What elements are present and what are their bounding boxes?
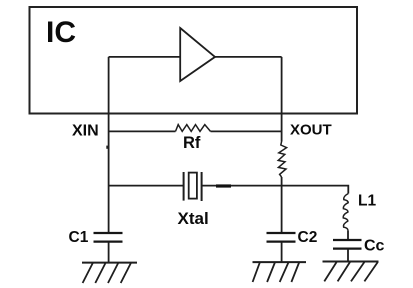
thick wire dash after crystal <box>216 184 231 187</box>
wire: XOUT squiggle to C2 <box>281 177 283 233</box>
svg-text:Rf: Rf <box>183 134 201 152</box>
svg-text:XIN: XIN <box>72 123 99 140</box>
wire: crystal node to L1 <box>282 186 349 194</box>
svg-text:XOUT: XOUT <box>290 122 332 139</box>
inductor L1 <box>343 194 348 231</box>
wire: Rf feedback left segment <box>109 130 176 132</box>
wire: amplifier input horizontal <box>109 56 181 58</box>
crystal Xtal body <box>189 173 197 199</box>
capacitor C1 top plate <box>94 232 123 234</box>
wire: L1 to Cc <box>347 231 349 240</box>
resistor (unlabeled series squiggle below XOUT) <box>278 142 286 178</box>
svg-text:Cc: Cc <box>364 238 385 255</box>
wire: C2 to ground <box>281 242 283 263</box>
capacitor C2 top plate <box>267 232 296 234</box>
IC box U1 <box>30 7 358 114</box>
ground under C2 <box>253 262 307 282</box>
wire: crystal branch left <box>109 185 184 187</box>
op-amp buffer A1 (inverter triangle) <box>180 28 215 81</box>
svg-text:C2: C2 <box>298 229 318 246</box>
wire: C1 to ground <box>108 242 110 263</box>
capacitor C1 bottom plate <box>94 241 123 243</box>
svg-text:C1: C1 <box>69 229 89 246</box>
wire: Cc to ground <box>347 249 349 262</box>
node XIN junction tick <box>106 146 108 149</box>
capacitor Cc top plate <box>333 239 362 241</box>
wire: XIN vertical (amp input down through box to C1) <box>108 57 110 233</box>
resistor Rf <box>176 125 211 132</box>
wire: amplifier output horizontal <box>215 56 282 58</box>
ground under Cc <box>323 262 379 282</box>
wire: Rf feedback right segment <box>211 130 282 132</box>
wire: XOUT vertical from amp output <box>281 57 283 142</box>
svg-text:Xtal: Xtal <box>178 209 209 228</box>
crystal Xtal left plate <box>183 172 185 201</box>
wire: crystal branch right <box>202 185 282 187</box>
capacitor C2 bottom plate <box>267 241 296 243</box>
crystal Xtal right plate <box>201 172 203 201</box>
capacitor Cc bottom plate <box>333 248 362 250</box>
svg-text:IC: IC <box>46 16 76 49</box>
svg-text:L1: L1 <box>358 193 376 210</box>
ground under C1 <box>82 263 137 283</box>
